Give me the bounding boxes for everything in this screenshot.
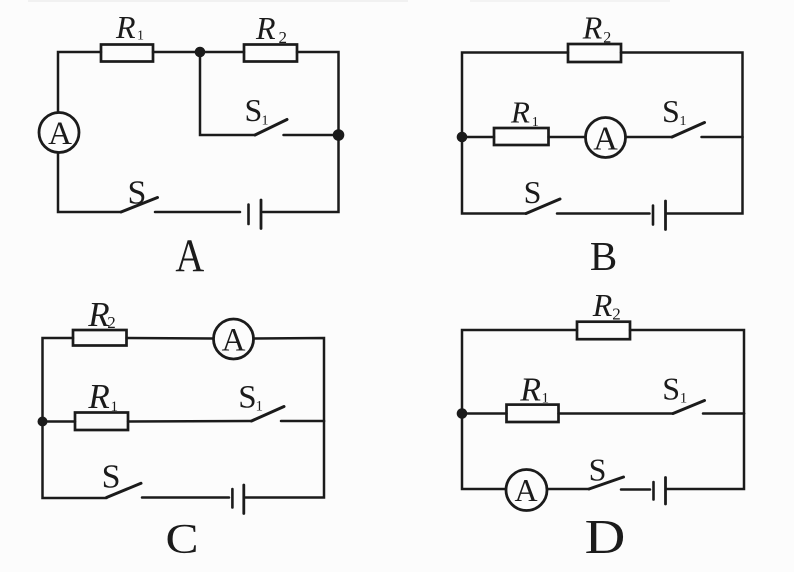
switch S1 (circuit B) blade (672, 123, 705, 138)
wire B: left wire node down to bottom-left corner (462, 137, 526, 214)
resistor R2 (circuit B) (568, 44, 621, 62)
svg-text:2: 2 (612, 305, 621, 324)
svg-text:S: S (238, 380, 256, 416)
node J1 (junction dot, circuit A) (195, 47, 206, 58)
ammeter U1 (circuit C) (214, 319, 254, 359)
svg-text:1: 1 (680, 391, 688, 407)
wire C: R2 to ammeter (127, 337, 214, 340)
svg-text:S: S (524, 174, 542, 210)
resistor R2 (circuit A) (244, 45, 297, 62)
svg-text:S: S (589, 451, 607, 487)
svg-text:1: 1 (256, 399, 264, 415)
svg-text:A: A (222, 323, 246, 359)
wire C: node down to bottom-left corner (43, 422, 107, 499)
svg-text:R: R (582, 10, 603, 46)
battery BT (circuit B) short plate (652, 206, 655, 225)
svg-text:D: D (585, 510, 626, 564)
wire B: R1 to ammeter (549, 136, 586, 139)
wire A: R1 to node J1 (153, 51, 200, 54)
ammeter U1 (circuit D) (506, 470, 547, 511)
switch S (circuit A) blade (121, 198, 158, 213)
svg-text:R: R (115, 9, 136, 45)
battery BT (circuit D) long plate (664, 478, 667, 505)
svg-text:A: A (48, 116, 72, 152)
svg-text:R: R (87, 377, 109, 416)
wire A: switch S to battery (155, 211, 240, 214)
svg-text:1: 1 (137, 29, 144, 44)
switch S (circuit C) blade (107, 483, 142, 497)
svg-text:S: S (128, 175, 147, 212)
wire A: top-left corner to R1 (58, 52, 101, 113)
wire A: ammeter to bottom-left corner (58, 154, 121, 213)
svg-text:1: 1 (680, 114, 687, 129)
svg-text:2: 2 (279, 28, 288, 47)
wire B: switch S1 to right wire (702, 136, 743, 139)
wire C: R1 to switch S1 (128, 420, 252, 423)
node J2 (junction dot on right wire, circuit A) (333, 129, 345, 141)
wire D: switch S1 to right wire (703, 412, 744, 415)
ammeter U1 (circuit B) (586, 118, 626, 158)
wire B: R2 to top-right corner (621, 53, 743, 138)
wire B: ammeter to switch S1 (626, 136, 672, 139)
battery BT (circuit A) short plate (247, 205, 250, 225)
wire C: switch S1 to right wire (281, 420, 324, 423)
node J1 (junction dot on left wire, circuit D) (457, 408, 468, 419)
resistor R2 (circuit D) (577, 322, 630, 340)
ammeter U1 (circuit A) (39, 113, 79, 153)
wire C: switch S to battery (142, 496, 229, 499)
wire C: ammeter to top-right corner (254, 338, 325, 421)
faint scan streak top edge (28, 0, 408, 2)
wire D: R1 to switch S1 (559, 412, 674, 415)
wire D: R2 to top-right corner (630, 330, 744, 414)
wire D: battery to bottom-right corner (667, 414, 744, 490)
battery BT (circuit D) short plate (652, 482, 655, 500)
wire C: node to R1 (43, 420, 76, 423)
svg-text:R: R (255, 10, 276, 46)
resistor R1 (circuit C) (75, 413, 128, 431)
svg-text:1: 1 (111, 399, 119, 415)
svg-text:R: R (510, 94, 530, 129)
battery BT (circuit B) long plate (664, 201, 667, 230)
node J1 (junction dot on left wire, circuit B) (457, 132, 468, 143)
battery BT (circuit C) short plate (231, 489, 234, 508)
wire B: switch S to battery (557, 212, 650, 215)
svg-text:C: C (165, 516, 198, 563)
svg-text:A: A (175, 230, 204, 282)
svg-text:S: S (662, 370, 680, 406)
switch S (circuit B) blade (526, 199, 560, 214)
wire B: left side top-left corner to R2 (462, 53, 568, 138)
resistor R1 (circuit A) (101, 45, 153, 62)
wire D: node to R1 (462, 412, 507, 415)
svg-text:S: S (662, 93, 680, 129)
switch S1 (circuit A) blade (255, 120, 287, 136)
svg-text:R: R (592, 287, 613, 323)
wire A: node J1 down and right to switch S1 (200, 52, 255, 135)
battery BT (circuit C) long plate (242, 485, 245, 514)
svg-text:S: S (245, 92, 263, 128)
wire A: switch S1 to node J2 (284, 134, 339, 137)
wire D: ammeter to switch S (548, 488, 590, 491)
svg-text:1: 1 (542, 391, 550, 407)
svg-text:2: 2 (107, 313, 116, 332)
wire D: node down to bottom-left corner, to ammeter (462, 414, 506, 490)
svg-text:B: B (590, 233, 617, 279)
switch S1 (circuit C) blade (252, 407, 285, 422)
svg-text:2: 2 (603, 29, 611, 46)
node J1 (junction dot on left wire, circuit C) (38, 417, 48, 427)
switch S1 (circuit D) blade (673, 401, 705, 414)
resistor R2 (circuit C) (73, 330, 127, 346)
svg-text:S: S (102, 459, 121, 496)
svg-text:A: A (593, 121, 618, 158)
wire C: battery to bottom-right corner (246, 421, 325, 498)
resistor R1 (circuit D) (507, 405, 559, 422)
switch S (circuit D) blade (589, 477, 624, 489)
wire A: node J1 to R2 (200, 51, 244, 54)
wire B: node to R1 (462, 136, 494, 139)
wire C: top-left corner to R2 (43, 338, 74, 422)
wire A: battery to bottom-right corner (263, 135, 339, 212)
resistor R1 (circuit B) (494, 128, 549, 145)
wire A: R2 to top-right corner down to node J2 (297, 52, 339, 135)
wire D: top-left corner to R2 (462, 330, 577, 414)
wire D: switch S to battery (621, 488, 650, 491)
svg-text:1: 1 (262, 113, 269, 128)
battery BT (circuit A) long plate (260, 200, 263, 229)
svg-text:1: 1 (532, 115, 539, 130)
svg-text:R: R (519, 371, 541, 408)
svg-text:A: A (514, 472, 537, 508)
wire B: battery to bottom-right corner (667, 137, 743, 214)
